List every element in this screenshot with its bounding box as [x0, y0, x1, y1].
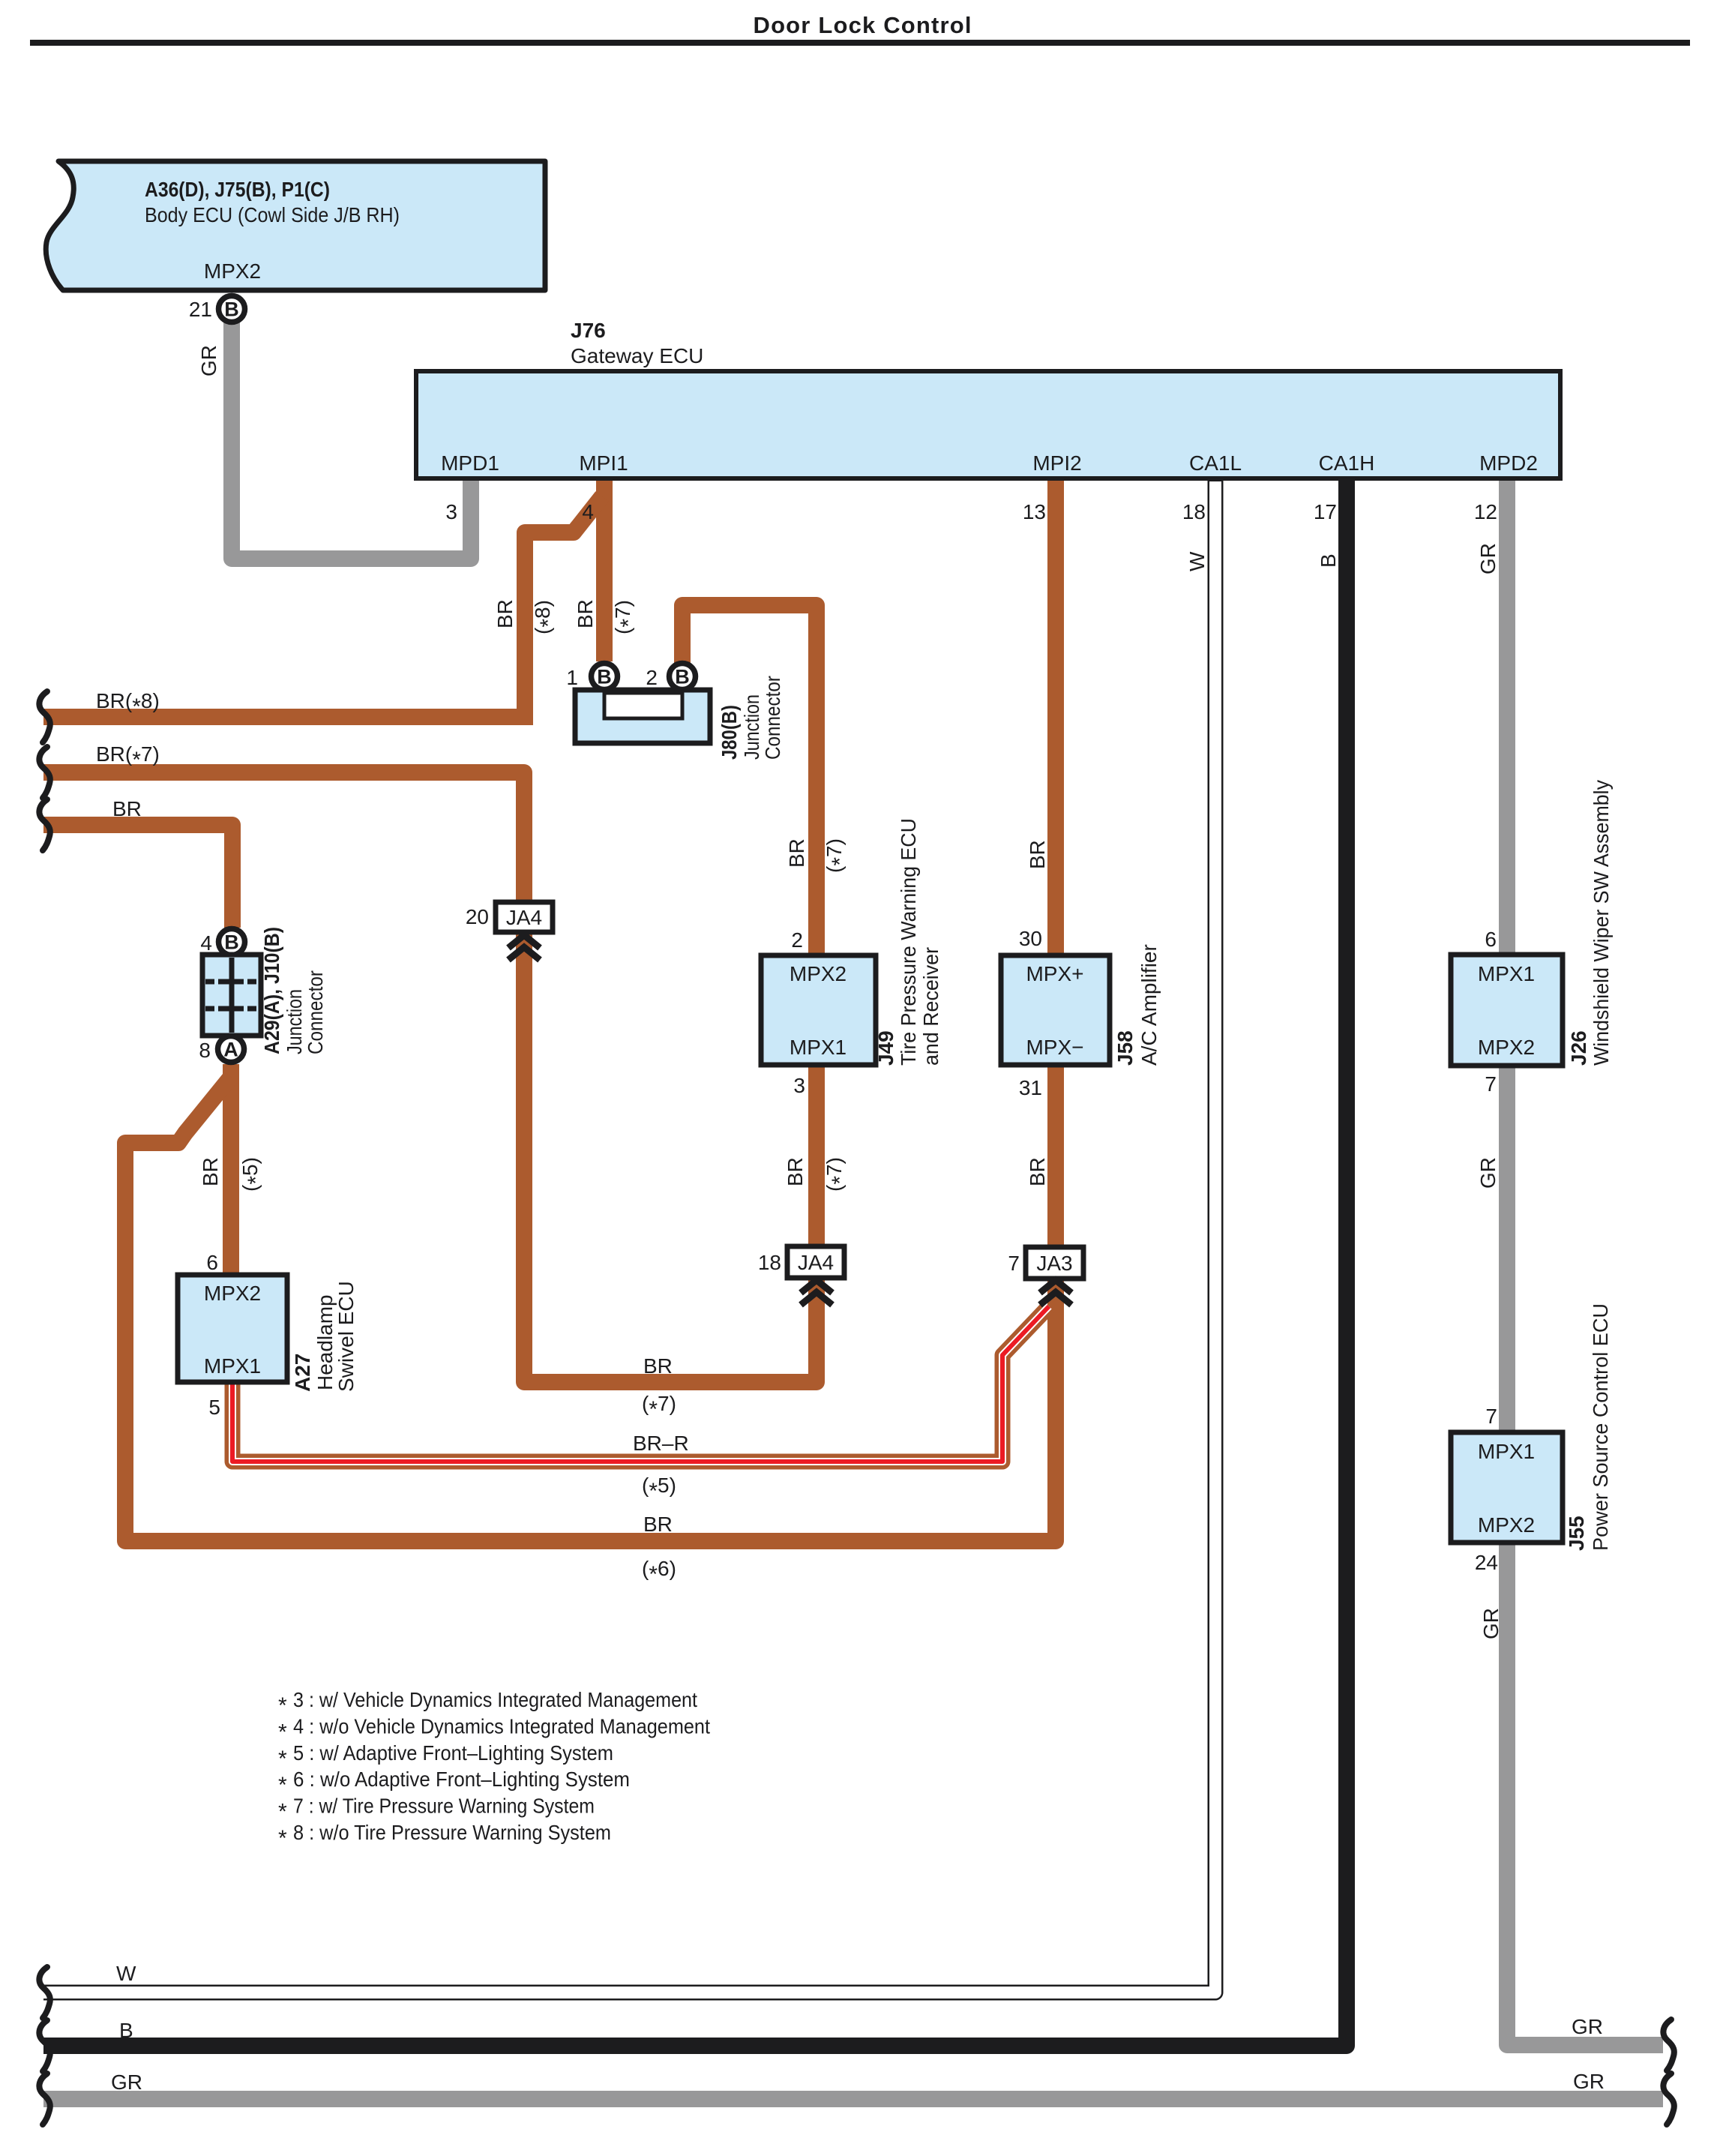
svg-text:3: 3 [445, 500, 457, 523]
svg-text:W: W [116, 1962, 136, 1985]
break symbol BR(*8) stub [39, 691, 49, 742]
svg-text:J55: J55 [1565, 1516, 1588, 1551]
wire BR (*7) JA4 pin 20 through JA4 pin 18 loop to J49 pin 3 [517, 772, 817, 1382]
svg-text:BR: BR [112, 797, 142, 820]
break symbol GR J55 harness right [1663, 2020, 1674, 2071]
svg-text:*​: *​ [278, 1720, 287, 1744]
svg-text:21: 21 [189, 298, 212, 321]
svg-text:CA1H: CA1H [1319, 451, 1375, 475]
svg-text:Junction: Junction [283, 989, 306, 1054]
wire GR J55 MPX2 pin 24 down and right to harness break [1507, 1541, 1663, 2045]
break symbol B harness left [39, 2020, 49, 2071]
svg-text:B: B [224, 931, 239, 954]
svg-text:8: 8 [199, 1039, 211, 1062]
svg-text:Gateway ECU: Gateway ECU [571, 344, 703, 367]
svg-text:4: 4 [582, 500, 594, 523]
svg-text:6: 6 [1485, 928, 1497, 951]
svg-text:BR: BR [785, 838, 808, 868]
svg-text:MPI1: MPI1 [579, 451, 628, 475]
wire GR bottom pass-through harness [43, 2091, 1663, 2107]
break symbol GR harness right [1663, 2074, 1674, 2125]
svg-text:(*8): (*8) [531, 600, 561, 634]
wire BR-R (*5) from A27 MPX1 pin 5 to JA3 pin 7 [232, 1306, 1049, 1462]
wire GR MPD2 pin 12 down to J26 MPX1 pin 6 [1499, 478, 1515, 954]
wire GR from Body ECU pin 21(B) to Gateway ECU pin 3 MPD1 [232, 322, 471, 559]
svg-text:MPX1: MPX1 [204, 1354, 261, 1378]
svg-text:(*7): (*7) [642, 1392, 676, 1422]
svg-text:MPX−: MPX− [1026, 1036, 1083, 1059]
svg-text:MPD2: MPD2 [1479, 451, 1538, 475]
wire BR (*5) from A29/J10 pin 8 down to A27 MPX2 pin 6 [223, 1064, 239, 1276]
svg-text:3 : w/ Vehicle Dynamics Integr: 3 : w/ Vehicle Dynamics Integrated Manag… [293, 1688, 697, 1711]
wire BR (*7) from J80(B) pin 2 to J49 MPX2 pin 2 [682, 605, 817, 954]
svg-text:(*6): (*6) [642, 1557, 676, 1587]
svg-text:CA1L: CA1L [1189, 451, 1242, 475]
svg-text:8 : w/o Tire Pressure Warning: 8 : w/o Tire Pressure Warning System [293, 1821, 611, 1844]
svg-text:A: A [223, 1039, 238, 1061]
wire BR (*6) branch from A29 pin 8 looping to JA3 pin 7 [125, 1077, 1056, 1541]
svg-text:GR: GR [1476, 1157, 1500, 1189]
svg-text:BR: BR [784, 1157, 807, 1186]
Body ECU A36(D), J75(B), P1(C) (Cowl Side J/B RH) box [46, 161, 545, 290]
svg-text:17: 17 [1314, 500, 1337, 523]
wire BR J58 MPX- pin 31 down to JA3 pin 7 [1047, 1063, 1064, 1285]
svg-text:BR: BR [199, 1157, 222, 1186]
wire GR J26 MPX2 pin 7 down to J55 MPX1 pin 7 [1499, 1064, 1515, 1434]
svg-text:18: 18 [1182, 500, 1206, 523]
svg-text:Tire Pressure Warning ECU: Tire Pressure Warning ECU [897, 818, 920, 1066]
svg-text:MPX2: MPX2 [1478, 1036, 1535, 1059]
svg-text:Swivel ECU: Swivel ECU [334, 1281, 358, 1392]
svg-text:Door Lock Control: Door Lock Control [754, 12, 972, 38]
svg-text:GR: GR [1479, 1608, 1503, 1639]
relay block JA4 pin 18 [787, 1246, 844, 1278]
svg-text:30: 30 [1019, 927, 1042, 950]
svg-text:J49: J49 [874, 1030, 897, 1066]
svg-text:*​: *​ [278, 1747, 287, 1771]
svg-text:5 : w/ Adaptive Front–Lighting: 5 : w/ Adaptive Front–Lighting System [293, 1741, 613, 1765]
svg-text:1: 1 [566, 666, 578, 689]
svg-text:(*7): (*7) [823, 1157, 853, 1192]
connector join chevrons below JA4-20 [508, 935, 540, 948]
svg-text:JA4: JA4 [506, 906, 542, 929]
svg-text:J58: J58 [1113, 1030, 1137, 1066]
svg-text:MPX2: MPX2 [204, 1282, 261, 1305]
svg-text:B: B [675, 666, 690, 688]
svg-text:GR: GR [1572, 2015, 1603, 2038]
svg-text:MPX2: MPX2 [790, 962, 847, 985]
svg-text:20: 20 [466, 905, 489, 928]
svg-text:GR: GR [111, 2071, 142, 2094]
svg-text:(*5): (*5) [642, 1474, 676, 1504]
svg-text:2: 2 [646, 666, 658, 689]
svg-text:JA3: JA3 [1036, 1252, 1072, 1275]
connector join chevrons below JA3-7 [1040, 1280, 1071, 1293]
svg-text:6: 6 [206, 1251, 218, 1274]
relay block JA3 pin 7 [1026, 1247, 1083, 1279]
svg-text:MPX2: MPX2 [1478, 1513, 1535, 1537]
svg-text:J26: J26 [1567, 1030, 1590, 1066]
svg-text:4 : w/o Vehicle Dynamics Integ: 4 : w/o Vehicle Dynamics Integrated Mana… [293, 1714, 710, 1738]
svg-text:A29(A), J10(B): A29(A), J10(B) [260, 927, 283, 1054]
svg-text:(*7): (*7) [823, 838, 853, 873]
svg-text:BR: BR [643, 1513, 673, 1536]
svg-text:(*7): (*7) [611, 600, 641, 634]
wire BR(*7) horizontal stub joining JA4 pin 20 drop [43, 764, 517, 781]
svg-text:B: B [597, 666, 612, 688]
svg-text:6 : w/o Adaptive Front–Lightin: 6 : w/o Adaptive Front–Lighting System [293, 1768, 630, 1791]
svg-text:(*5): (*5) [238, 1157, 268, 1192]
svg-text:*​: *​ [278, 1826, 287, 1851]
svg-text:BR: BR [1026, 1157, 1049, 1186]
svg-text:7: 7 [1485, 1072, 1497, 1096]
svg-text:A27: A27 [291, 1354, 314, 1392]
svg-text:7: 7 [1485, 1405, 1497, 1428]
svg-text:BR: BR [643, 1354, 673, 1378]
svg-text:18: 18 [758, 1251, 781, 1274]
svg-text:MPX1: MPX1 [1478, 1440, 1535, 1463]
wire BR MPI2 pin 13 down to J58 MPX+ pin 30 [1047, 478, 1064, 954]
svg-text:JA4: JA4 [798, 1251, 834, 1274]
svg-text:MPI2: MPI2 [1032, 451, 1081, 475]
break symbol BR stub [39, 799, 49, 850]
svg-text:13: 13 [1023, 500, 1046, 523]
svg-text:*​: *​ [278, 1773, 287, 1798]
svg-text:BR–R: BR–R [633, 1432, 689, 1455]
svg-text:Connector: Connector [304, 970, 327, 1054]
svg-text:3: 3 [793, 1074, 805, 1097]
svg-text:GR: GR [1573, 2070, 1605, 2093]
wire W CA1L pin 18 down and left to harness break [43, 478, 1215, 1993]
svg-text:B: B [119, 2019, 133, 2042]
svg-text:Windshield Wiper SW Assembly: Windshield Wiper SW Assembly [1590, 780, 1613, 1066]
wire BR (*8) branch from MPI1 wire down to BR(*8) stub [525, 496, 602, 717]
svg-text:12: 12 [1474, 500, 1497, 523]
svg-text:J76: J76 [571, 319, 606, 342]
svg-text:7 : w/ Tire Pressure Warning S: 7 : w/ Tire Pressure Warning System [293, 1795, 595, 1818]
svg-text:BR: BR [574, 599, 597, 628]
svg-text:7: 7 [1008, 1252, 1020, 1275]
svg-text:J80(B): J80(B) [718, 705, 741, 760]
wire B CA1H pin 17 down and left to harness break [43, 478, 1347, 2046]
svg-text:Power Source Control ECU: Power Source Control ECU [1589, 1303, 1612, 1551]
svg-text:*​: *​ [278, 1693, 287, 1718]
svg-text:A36(D), J75(B), P1(C): A36(D), J75(B), P1(C) [145, 178, 330, 201]
relay block JA4 pin 20 [496, 902, 553, 932]
svg-text:B: B [1317, 553, 1340, 568]
svg-text:BR: BR [1026, 840, 1049, 869]
svg-text:MPX1: MPX1 [1478, 962, 1535, 985]
svg-text:A/C Amplifier: A/C Amplifier [1137, 944, 1161, 1066]
svg-text:24: 24 [1475, 1551, 1498, 1574]
svg-text:MPX2: MPX2 [204, 259, 261, 283]
break symbol BR(*7) stub [39, 747, 49, 798]
svg-text:5: 5 [208, 1396, 220, 1419]
wire BR(*8) horizontal stub to harness break [43, 709, 533, 725]
svg-text:B: B [224, 298, 239, 321]
break symbol W harness left [39, 1967, 49, 2018]
wire BR MPI1 pin 4 down to J80(B) pin 1 [596, 478, 613, 661]
svg-text:4: 4 [200, 931, 212, 955]
connector join chevrons below JA4-18 [801, 1280, 832, 1293]
svg-text:GR: GR [1476, 543, 1500, 574]
svg-text:GR: GR [197, 345, 220, 376]
svg-text:and Receiver: and Receiver [919, 947, 942, 1066]
svg-text:2: 2 [791, 928, 803, 952]
svg-text:*​: *​ [278, 1800, 287, 1825]
wire BR horizontal stub to A29/J10 junction connector pin 4 [43, 825, 232, 928]
svg-text:Body ECU (Cowl Side J/B RH): Body ECU (Cowl Side J/B RH) [145, 203, 400, 226]
svg-text:Connector: Connector [761, 676, 784, 760]
svg-text:MPX1: MPX1 [790, 1036, 847, 1059]
break symbol GR harness left [39, 2074, 49, 2125]
svg-text:MPX+: MPX+ [1026, 962, 1083, 985]
svg-text:31: 31 [1019, 1076, 1042, 1099]
svg-text:MPD1: MPD1 [441, 451, 499, 475]
svg-text:Headlamp: Headlamp [313, 1294, 337, 1390]
svg-text:Junction: Junction [740, 694, 763, 760]
svg-text:BR: BR [493, 599, 517, 628]
Junction Connector J80(B) box [575, 690, 710, 743]
svg-text:W: W [1185, 551, 1209, 571]
